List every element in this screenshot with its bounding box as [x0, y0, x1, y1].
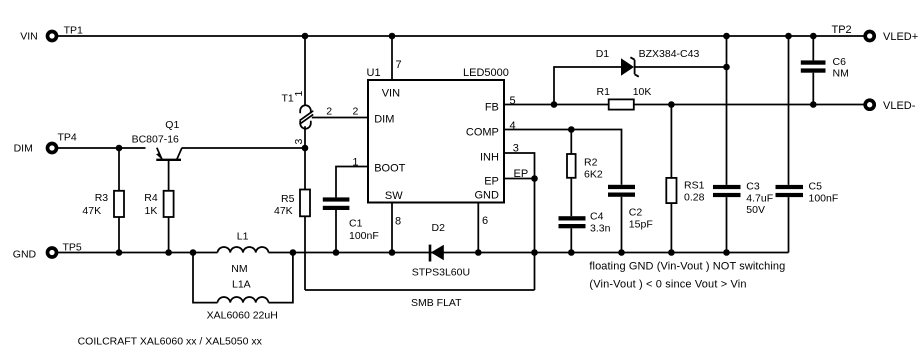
node R2 top junction: [568, 126, 575, 133]
svg-text:COILCRAFT XAL6060 xx / XAL5: COILCRAFT XAL6060 xx / XAL5050 xx: [78, 336, 263, 348]
node T1 top junction: [302, 33, 309, 40]
svg-text:VIN: VIN: [382, 88, 400, 100]
svg-text:BC807-16: BC807-16: [132, 134, 179, 146]
node C6 bottom junction: [810, 101, 817, 108]
wire C5 branch: [788, 36, 790, 185]
svg-text:GND: GND: [13, 248, 37, 260]
svg-text:1K: 1K: [145, 205, 158, 217]
wire EP vertical: [534, 179, 536, 291]
node RS1 top junction: [668, 101, 675, 108]
diode D1 BZX384-C43 zener: [596, 48, 700, 77]
svg-text:NM: NM: [231, 263, 247, 275]
capacitor C4: [559, 211, 611, 253]
wire DIM line left segment: [58, 147, 146, 149]
svg-text:EP: EP: [484, 175, 499, 187]
node D1 left junction: [551, 101, 558, 108]
transistor Q2 BC807-16: [132, 119, 182, 191]
svg-text:C1: C1: [349, 218, 363, 230]
svg-text:2: 2: [353, 106, 359, 118]
node C5 top junction: [785, 33, 792, 40]
svg-text:R5: R5: [281, 193, 295, 205]
svg-text:D1: D1: [596, 48, 610, 60]
node R3 top junction: [116, 145, 123, 152]
wire T1 top lead: [304, 36, 306, 106]
node EP junction: [531, 175, 538, 182]
node R4 bottom junction: [165, 249, 172, 256]
svg-text:4.7uF: 4.7uF: [746, 193, 773, 205]
svg-text:LED5000: LED5000: [463, 67, 509, 79]
svg-text:L1A: L1A: [232, 279, 251, 291]
svg-text:DIM: DIM: [374, 113, 394, 125]
svg-text:C2: C2: [629, 207, 643, 219]
svg-text:15pF: 15pF: [629, 219, 653, 231]
wire INH line: [504, 143, 535, 179]
resistor R1: [510, 86, 652, 110]
wire VIN rail: [58, 35, 864, 37]
jumper T1: [282, 91, 314, 145]
svg-text:7: 7: [396, 59, 402, 71]
svg-text:100nF: 100nF: [349, 230, 379, 242]
diode D2 STPS3L60U: [412, 222, 470, 279]
node SW junction: [389, 249, 396, 256]
resistor R5: [274, 148, 310, 290]
inductor L1: [218, 231, 269, 276]
note floating GND: [589, 261, 785, 291]
wire SW pin 8 lead: [392, 203, 401, 253]
node C2 bottom junction: [618, 249, 625, 256]
wire T1 pin2 to DIM pin: [312, 106, 367, 118]
svg-text:(Vin-Vout ) < 0 since Vout > V: (Vin-Vout ) < 0 since Vout > Vin: [589, 279, 746, 291]
svg-text:TP1: TP1: [64, 25, 83, 37]
op-amp U1 LED5000 box: [367, 67, 509, 203]
wire GND pin 6 lead: [478, 203, 488, 253]
svg-text:6: 6: [482, 215, 488, 227]
svg-text:Q1: Q1: [165, 119, 179, 131]
svg-text:3: 3: [293, 139, 305, 145]
svg-text:U1: U1: [367, 67, 381, 79]
terminal TP1 VIN: [20, 25, 83, 43]
svg-text:L1: L1: [237, 231, 249, 243]
capacitor C1: [323, 197, 379, 252]
terminal TP2 VLED+: [832, 24, 919, 43]
svg-text:2: 2: [326, 106, 332, 118]
node C6 top junction: [810, 33, 817, 40]
svg-text:VIN: VIN: [20, 30, 38, 42]
svg-text:SW: SW: [385, 190, 403, 202]
svg-text:100nF: 100nF: [809, 193, 839, 205]
resistor R2: [567, 130, 603, 217]
capacitor C6: [801, 36, 849, 105]
node T1 pin3 junction: [302, 145, 309, 152]
wire EP line: [504, 168, 535, 180]
wire C3 branch: [726, 36, 728, 185]
svg-text:5: 5: [510, 95, 516, 107]
svg-text:C5: C5: [809, 181, 823, 193]
node L1A left junction: [190, 249, 197, 256]
svg-text:50V: 50V: [746, 204, 765, 216]
node RS1 bottom junction: [668, 249, 675, 256]
capacitor C5: [776, 181, 839, 253]
svg-text:1: 1: [352, 156, 358, 168]
svg-text:VLED+: VLED+: [883, 31, 918, 43]
node R3 bottom junction: [116, 249, 123, 256]
svg-text:NM: NM: [833, 68, 849, 80]
wire COMP line: [504, 120, 622, 185]
wire pin 7 lead: [392, 36, 402, 80]
svg-text:C4: C4: [590, 211, 604, 223]
svg-text:BZX384-C43: BZX384-C43: [639, 48, 700, 60]
svg-text:STPS3L60U: STPS3L60U: [412, 267, 470, 279]
terminal TP5 GND: [13, 242, 82, 261]
wire D1 branch: [554, 67, 727, 105]
inductor L1A loop: [193, 253, 293, 322]
node D1 right junction: [723, 64, 730, 71]
resistor RS1: [666, 105, 704, 253]
svg-text:3: 3: [513, 143, 519, 155]
svg-text:C6: C6: [833, 56, 847, 68]
svg-text:10K: 10K: [633, 86, 652, 98]
svg-text:RS1: RS1: [684, 180, 705, 192]
resistor R4: [144, 191, 173, 253]
svg-text:8: 8: [395, 216, 401, 228]
svg-text:3.3n: 3.3n: [590, 223, 611, 235]
resistor R3: [82, 148, 124, 253]
svg-text:DIM: DIM: [14, 143, 33, 155]
terminal TP4 DIM: [14, 132, 77, 155]
svg-text:1: 1: [293, 91, 305, 97]
svg-text:INH: INH: [480, 151, 499, 163]
node L1 right junction: [290, 249, 297, 256]
svg-text:R1: R1: [597, 86, 611, 98]
terminal VLED-: [865, 100, 916, 112]
wire DIM line right segment: [182, 147, 305, 149]
node C3 bottom junction: [723, 249, 730, 256]
capacitor C2: [608, 185, 653, 253]
wire SMB FLAT bracket: [305, 290, 535, 309]
svg-text:R4: R4: [144, 192, 158, 204]
svg-text:47K: 47K: [82, 205, 101, 217]
node C1 bottom junction: [333, 249, 340, 256]
node C4 bottom junction: [568, 249, 575, 256]
svg-text:floating GND (Vin-Vout ) NOT s: floating GND (Vin-Vout ) NOT switching: [589, 261, 785, 273]
svg-text:0.28: 0.28: [684, 192, 705, 204]
svg-text:FB: FB: [485, 102, 499, 114]
note COILCRAFT: [78, 336, 263, 348]
svg-text:VLED-: VLED-: [883, 100, 916, 112]
svg-text:47K: 47K: [274, 205, 293, 217]
svg-text:COMP: COMP: [466, 126, 499, 138]
wire GND rail left: [58, 252, 218, 254]
svg-text:XAL6060 22uH: XAL6060 22uH: [207, 310, 278, 322]
wire BOOT lead: [336, 156, 367, 197]
svg-text:R2: R2: [584, 157, 598, 169]
node EP GND junction: [531, 249, 538, 256]
svg-text:GND: GND: [474, 190, 499, 202]
svg-text:TP4: TP4: [58, 132, 77, 144]
svg-text:6K2: 6K2: [584, 169, 603, 181]
wire GND rail right: [269, 252, 789, 254]
svg-text:SMB FLAT: SMB FLAT: [411, 297, 462, 309]
svg-text:4: 4: [510, 120, 516, 132]
svg-text:D2: D2: [432, 222, 446, 234]
svg-text:R3: R3: [95, 192, 109, 204]
node GND pin junction: [475, 249, 482, 256]
capacitor C3: [713, 181, 773, 253]
svg-text:EP: EP: [514, 168, 529, 180]
svg-text:BOOT: BOOT: [374, 162, 405, 174]
wire T1 bottom lead: [304, 126, 306, 148]
svg-text:TP2: TP2: [832, 24, 852, 36]
node pin7 junction: [389, 33, 396, 40]
wire FB line with R1: [504, 104, 864, 106]
svg-text:C3: C3: [746, 181, 760, 193]
node C3 top junction: [723, 33, 730, 40]
